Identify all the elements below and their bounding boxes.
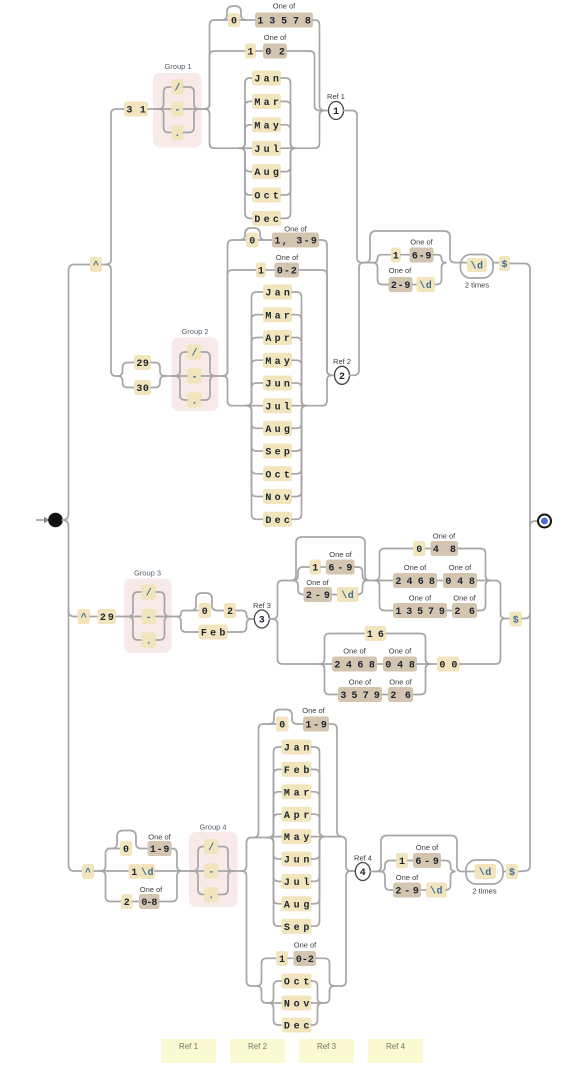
wire year split lower <box>372 263 389 285</box>
literal 0 (0[48]) <box>413 541 426 556</box>
svg-text:0-2: 0-2 <box>277 267 297 278</box>
svg-text:2 4 6 8: 2 4 6 8 <box>334 661 375 672</box>
wire month merge <box>281 125 296 148</box>
svg-text:One of: One of <box>349 678 372 687</box>
svg-text:Ref 4: Ref 4 <box>354 854 372 863</box>
wire group4 exit <box>234 870 242 872</box>
svg-text:1: 1 <box>279 955 285 966</box>
month Aug (branch4) <box>282 896 312 911</box>
literal 1 (year 1[6-9]) <box>391 248 401 263</box>
svg-text:One of: One of <box>396 873 419 882</box>
literal 00 <box>437 657 460 672</box>
svg-text:One of: One of <box>404 563 427 572</box>
wire split to Feb row <box>176 617 199 633</box>
charclass 2-9 leap <box>304 587 333 602</box>
skip bypass year prefix bottom <box>376 836 462 872</box>
wire 1 to 6-9 bottom <box>408 860 413 862</box>
svg-text:Group 4: Group 4 <box>199 823 226 832</box>
wire [02] to merge <box>287 51 325 111</box>
wire month2 split <box>246 315 263 406</box>
literal 1 (1[0-2]) <box>256 263 266 278</box>
wire month2 split <box>246 406 263 497</box>
svg-text:Ref 4: Ref 4 <box>386 1042 406 1051</box>
wire group1 split to slash <box>157 87 171 109</box>
svg-text:Apr: Apr <box>284 811 310 822</box>
wire bypass out to 2 <box>217 610 224 612</box>
wire 1 to 6-9 <box>401 254 410 256</box>
wire month3 merge <box>312 837 325 859</box>
separator - in group 2 <box>188 369 202 384</box>
svg-text:\d: \d <box>470 261 483 273</box>
wire 2 to 0-8 <box>133 901 140 903</box>
repeat loop box for \d 2 times (bottom) <box>466 860 503 884</box>
svg-text:Nov: Nov <box>265 493 290 504</box>
wire into Ref 1 <box>325 110 329 112</box>
wire month3 merge <box>312 837 325 904</box>
wire to month row <box>238 148 252 195</box>
month Mar (branch4) <box>282 784 312 799</box>
svg-text:6-9: 6-9 <box>415 857 439 868</box>
wire subB split to 1[0-2] row <box>257 958 277 986</box>
wire month2 merge <box>292 406 307 474</box>
charclass 3 5 7 9 <box>338 687 382 702</box>
wire 0-8 merge <box>160 871 183 902</box>
svg-text:Jul: Jul <box>284 877 310 889</box>
svg-text:One of: One of <box>329 550 352 559</box>
anchor ^ (branch 3) <box>78 609 91 624</box>
svg-text:One of: One of <box>273 2 296 11</box>
wire month4 split <box>267 1002 282 1004</box>
wire month3 split <box>266 769 282 837</box>
wire month2 merge <box>292 405 306 407</box>
wire into Group 2 <box>166 375 174 377</box>
wire month merge <box>281 78 296 148</box>
wire year split upper <box>372 255 391 263</box>
wire merge dot g3 <box>156 617 170 641</box>
wire Ref4 to year part bottom <box>370 871 376 873</box>
group G1 background and label <box>153 73 202 148</box>
separator - in group 1 <box>171 102 183 117</box>
wire 48 merge <box>458 549 491 581</box>
month Jan (branch1) <box>252 71 281 86</box>
wire split upper year bottom <box>380 861 396 872</box>
svg-text:Apr: Apr <box>265 334 290 345</box>
svg-text:Aug: Aug <box>254 168 279 179</box>
literal 1 (day 1x) <box>129 864 141 879</box>
wire 1-9 day merge <box>172 849 183 872</box>
svg-text:One of: One of <box>284 225 307 234</box>
svg-text:One of: One of <box>389 266 412 275</box>
charclass 2-9 top <box>389 277 413 292</box>
wire day0 out <box>141 848 148 850</box>
charclass 2 6 lower <box>388 687 413 702</box>
charclass 0-8 <box>139 894 160 909</box>
anchor $ (branch 4 end) <box>506 864 518 879</box>
svg-text:1: 1 <box>247 48 253 59</box>
literal 0 (0? of month) <box>228 13 240 27</box>
literal Feb (leap) <box>199 625 228 640</box>
svg-text:May: May <box>265 357 290 368</box>
svg-text:One of: One of <box>148 833 171 842</box>
charclass 1-9 day <box>148 841 172 856</box>
wire 0 to charclass <box>240 19 255 21</box>
wire 2-9 to escape d <box>413 284 417 286</box>
legend Ref 2 <box>230 1039 285 1063</box>
wire month2 split <box>246 406 263 451</box>
wire caret4 to day alternation <box>94 870 100 872</box>
wire month3 split <box>266 838 282 904</box>
wire 1 to 0-2 bottom <box>288 957 294 959</box>
svg-text:Aug: Aug <box>265 425 290 436</box>
wire 1 to [02] <box>256 50 263 52</box>
svg-text:One of: One of <box>410 238 433 247</box>
wire month3 split <box>266 814 282 837</box>
wire month4 merge <box>312 1002 322 1004</box>
svg-text:1 3 5 7 8: 1 3 5 7 8 <box>257 17 311 28</box>
svg-text:1: 1 <box>393 252 399 263</box>
literal 0 (branch2) <box>246 233 259 248</box>
wire split subA months 1-9 <box>242 838 255 872</box>
wire split to month group row <box>204 109 238 148</box>
end point <box>538 515 551 528</box>
wire month4 split <box>267 981 282 1003</box>
wire subB out to Ref4 merge <box>334 871 353 986</box>
svg-text:Ref 3: Ref 3 <box>253 601 271 610</box>
svg-text:/: / <box>146 588 152 600</box>
separator . in group 2 <box>188 393 202 408</box>
wire month2 split <box>246 406 263 474</box>
svg-text:1: 1 <box>333 107 339 118</box>
wire split to 0?[13578] row <box>204 20 217 109</box>
svg-text:0-8: 0-8 <box>141 898 157 909</box>
wire 2-9 to d bottom <box>421 889 426 891</box>
svg-text:.: . <box>146 637 152 648</box>
month Sep (branch2) <box>263 444 292 459</box>
wire month3 merge <box>312 769 325 836</box>
wire split to 1[02] row <box>204 51 245 109</box>
wire month2 merge <box>292 406 307 451</box>
month Nov (branch4 late) <box>282 996 312 1011</box>
svg-text:0 2: 0 2 <box>265 48 285 59</box>
wire into month 0 <box>264 723 276 725</box>
svg-text:.: . <box>174 129 180 140</box>
svg-text:One of: One of <box>433 532 456 541</box>
month May (branch4) <box>282 829 312 844</box>
escape \d leap <box>337 587 359 602</box>
wire group3 dot <box>126 617 142 641</box>
svg-text:Mar: Mar <box>254 98 279 109</box>
separator . in group 4 <box>204 887 219 902</box>
svg-text:2 4 6 8: 2 4 6 8 <box>395 577 435 588</box>
wire month3 split <box>266 792 282 838</box>
wire trunk from start up to top branch anchor <box>62 265 90 521</box>
escape \d repeated top <box>467 258 487 272</box>
svg-text:Jan: Jan <box>265 289 290 300</box>
separator . in group 3 <box>142 633 157 648</box>
wire merge 29 <box>151 363 166 377</box>
svg-text:One of: One of <box>276 253 299 262</box>
wire month2 merge <box>292 315 307 406</box>
month Oct (branch1) <box>252 188 281 203</box>
wire month merge <box>281 147 295 149</box>
wire into Ref 4 <box>352 870 356 872</box>
wire day 1d merge <box>155 870 181 872</box>
literal 1 (year bottom) <box>396 853 408 868</box>
wire group2 split slash <box>174 352 188 376</box>
svg-text:Oct: Oct <box>254 192 279 203</box>
month Nov (branch2) <box>263 489 292 504</box>
wire subA out to Ref4 merge <box>341 837 352 871</box>
skip bypass over optional 0 (branch2) <box>240 228 265 240</box>
skip bypass over optional 0 <box>222 6 246 20</box>
wire loop to dollar <box>493 262 499 264</box>
literal 31 <box>124 102 148 117</box>
anchor $ (branch 1/2 end) <box>499 256 510 271</box>
charclass 0 4 8 lower <box>383 657 417 672</box>
wire into leap year prefix <box>286 580 293 582</box>
wire subB months out <box>322 986 335 1003</box>
wire to month row <box>238 78 252 148</box>
svg-text:Ref 1: Ref 1 <box>327 92 345 101</box>
wire 048 merge <box>477 580 490 582</box>
svg-text:One of: One of <box>343 647 366 656</box>
literal 16 <box>365 626 387 641</box>
wire into year alternation bottom <box>376 871 380 873</box>
svg-text:Mar: Mar <box>265 311 290 322</box>
separator / in group 2 <box>188 345 202 360</box>
wire month2 split <box>246 406 263 520</box>
svg-text:One of: One of <box>294 941 317 950</box>
literal 30 <box>134 380 151 395</box>
svg-text:One of: One of <box>389 678 412 687</box>
svg-text:\d: \d <box>419 280 432 292</box>
wire 1 to 0-2 <box>266 269 275 271</box>
wire caret to 29 <box>90 616 98 618</box>
wire subA straight months <box>254 837 266 839</box>
wire from ^ to day split <box>102 264 106 266</box>
svg-text:1: 1 <box>131 868 137 879</box>
svg-text:0: 0 <box>279 721 285 732</box>
wire merge dash g2 <box>202 375 216 377</box>
month May (branch1) <box>252 117 281 132</box>
svg-text:Oct: Oct <box>284 978 310 989</box>
wire group3 split slash <box>126 592 142 617</box>
svg-text:4 8: 4 8 <box>433 545 456 556</box>
svg-text:30: 30 <box>136 384 149 395</box>
wire month2 merge <box>292 338 307 406</box>
svg-text:2: 2 <box>227 607 233 618</box>
wire d leap merge <box>358 581 368 595</box>
wire split to 30 <box>118 376 135 388</box>
charclass 1 3 5 7 9 <box>393 603 447 618</box>
wire to month row <box>238 148 252 218</box>
wire split 2[0-8] day <box>100 871 121 902</box>
wire merge dash <box>184 108 200 110</box>
wire to month row <box>238 125 252 148</box>
anchor ^ (branch 1) <box>90 257 102 272</box>
wire Ref3 to upper year option <box>269 581 286 620</box>
wire Feb to merge <box>228 619 252 632</box>
wire to repeat loop bottom <box>462 871 475 873</box>
wire group4 split slash <box>191 847 204 872</box>
wire group2 exit <box>215 375 222 377</box>
literal 0 (day) <box>120 841 132 856</box>
month Feb (branch4) <box>282 762 312 777</box>
wire dollar right and down the main right trunk <box>510 264 530 872</box>
month Oct (branch2) <box>263 466 292 481</box>
svg-text:0: 0 <box>231 17 237 28</box>
escape \d (day) <box>140 864 155 879</box>
wire merge dot <box>184 109 200 133</box>
svg-text:One of: One of <box>302 706 325 715</box>
svg-text:One of: One of <box>449 563 472 572</box>
legend Ref 1 <box>161 1039 216 1063</box>
wire group3 dash <box>126 616 142 618</box>
wire to 00 <box>430 663 438 665</box>
month Apr (branch4) <box>282 807 312 822</box>
month Dec (branch4 late) <box>282 1018 312 1033</box>
svg-text:.: . <box>208 891 214 902</box>
escape \d repeated bottom <box>475 864 497 879</box>
wire to month row <box>238 147 252 149</box>
wire 2468L to 048L <box>377 663 383 665</box>
wire 0-2 bottom merge <box>316 958 335 986</box>
month May (branch2) <box>263 353 292 368</box>
svg-text:\d: \d <box>341 590 354 602</box>
svg-text:\d: \d <box>479 867 492 879</box>
legend Ref 4 <box>368 1039 423 1063</box>
svg-text:Jul: Jul <box>265 401 290 413</box>
wire 16 merge <box>386 634 431 665</box>
wire merge slash <box>184 87 200 109</box>
svg-text:1, 3-9: 1, 3-9 <box>274 237 317 248</box>
wire month2 split <box>246 292 263 406</box>
wire escape d merge <box>435 263 447 285</box>
wire split 1 6-9 leap <box>293 567 310 581</box>
wire split to 0[48] <box>374 549 413 581</box>
escape \d after 2-9 top <box>417 277 436 292</box>
svg-text:$: $ <box>509 867 515 879</box>
wire split middle 2468 <box>374 580 393 582</box>
wire 3579 to 26L <box>382 694 388 696</box>
svg-text:Ref 2: Ref 2 <box>248 1042 268 1051</box>
svg-text:2: 2 <box>339 372 345 383</box>
wire 13579 to 26 <box>447 610 452 612</box>
wire Ref1 down to year part <box>344 111 366 263</box>
Ref 2 circle <box>335 366 350 384</box>
wire month3 split <box>266 838 282 927</box>
wire split lower year bottom <box>380 872 393 891</box>
svg-text:^: ^ <box>93 260 99 272</box>
month Oct (branch4 late) <box>282 974 312 989</box>
legend Ref 3 <box>299 1039 354 1063</box>
wire 048L merge <box>417 663 430 665</box>
svg-text:Feb: Feb <box>201 628 226 640</box>
charclass 6-9 bottom <box>413 853 441 868</box>
svg-text:Jun: Jun <box>284 856 310 867</box>
wire 6-9 bottom merge <box>441 861 456 872</box>
wire group3 exit <box>170 616 176 618</box>
svg-text:1-9: 1-9 <box>150 845 170 856</box>
svg-text:3: 3 <box>259 616 265 627</box>
svg-text:/: / <box>174 83 180 95</box>
charclass 0-2 <box>275 263 300 278</box>
svg-text:-: - <box>191 373 197 384</box>
charclass 2 4 6 8 lower <box>332 657 377 672</box>
wire month4 merge <box>312 981 323 1003</box>
wire loop to dollar bottom <box>503 871 506 873</box>
svg-text:Dec: Dec <box>254 215 279 226</box>
wire month2 merge <box>292 360 307 406</box>
wire split to 16 row <box>320 634 365 665</box>
wire month3 merge <box>312 792 325 837</box>
wire 6-9 merge <box>434 255 447 263</box>
wire 1-9 month merge down <box>329 724 342 837</box>
month Dec (branch2) <box>263 512 292 527</box>
wire split 2-9 d leap <box>293 581 304 595</box>
svg-text:.: . <box>191 397 197 408</box>
wire month3 split <box>266 747 282 838</box>
svg-text:2-9: 2-9 <box>395 887 419 898</box>
svg-text:Aug: Aug <box>284 900 310 911</box>
svg-text:3 5 7 9: 3 5 7 9 <box>340 691 380 702</box>
wire group2 dash <box>174 375 188 377</box>
wire split to 29 <box>118 363 135 377</box>
wire months to ref merge <box>295 111 325 149</box>
literal 1 (leap year) <box>310 560 322 575</box>
wire to month row <box>238 101 252 148</box>
separator . in group 1 <box>171 125 183 140</box>
wire to repeat loop <box>455 262 467 264</box>
wire trunk tap to middle branch <box>69 610 78 617</box>
wire split to 0?2 row <box>176 611 187 617</box>
wire 26L merge <box>413 664 431 695</box>
wire month0 out <box>297 723 303 725</box>
wire into 0 <box>217 19 228 21</box>
svg-text:Ref 2: Ref 2 <box>333 357 351 366</box>
svg-text:Sep: Sep <box>265 448 290 459</box>
literal 1 (month 1x) <box>276 951 288 966</box>
month Jan (branch4) <box>282 740 312 755</box>
anchor $ (branch 3 end) <box>510 612 523 627</box>
wire Ref2 up to year part <box>350 263 366 376</box>
wire mid dollar to right trunk <box>522 613 530 619</box>
wire Ref3 to lower year option <box>269 619 320 664</box>
group G3 background and label <box>124 579 172 654</box>
month Jun (branch2) <box>263 376 292 391</box>
svg-text:Group 3: Group 3 <box>134 569 161 578</box>
svg-text:6-9: 6-9 <box>412 252 432 263</box>
charclass 0 4 8 upper <box>443 573 477 588</box>
svg-text:2: 2 <box>124 898 130 909</box>
charclass 2 6 upper <box>452 603 477 618</box>
wire split to 3579 row <box>320 664 339 695</box>
svg-text:2-9: 2-9 <box>306 591 330 602</box>
literal 1 (of 1[02]) <box>245 44 256 59</box>
svg-text:One of: One of <box>264 33 287 42</box>
svg-text:29: 29 <box>100 613 114 624</box>
charclass 6-9 top <box>410 248 434 263</box>
wire into mid dollar <box>505 618 510 620</box>
wire group2 dot <box>174 376 188 400</box>
svg-text:2 6: 2 6 <box>390 691 411 702</box>
wire split to 1[0-2] row <box>222 270 256 376</box>
wire 26 merge <box>477 581 491 611</box>
literal 0 (month bottom) <box>276 717 289 732</box>
wire merge slash g2 <box>202 352 216 376</box>
svg-text:$: $ <box>513 615 519 627</box>
svg-text:\d: \d <box>430 886 443 898</box>
